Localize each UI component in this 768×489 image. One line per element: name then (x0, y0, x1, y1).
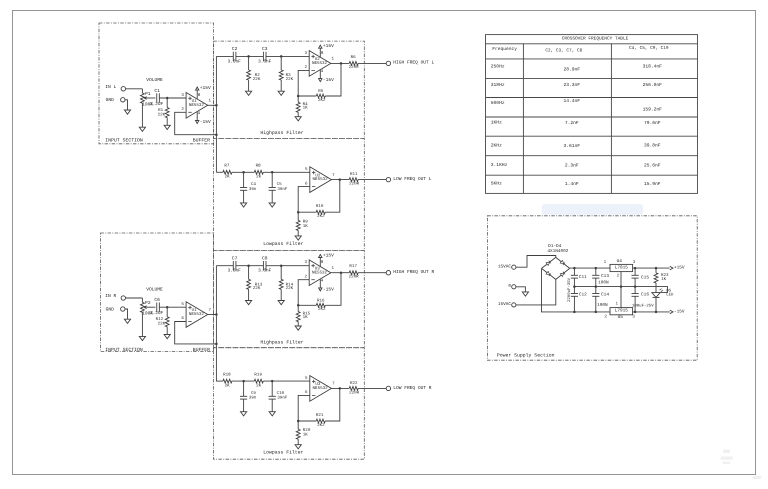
capacitor C12 2200uF-35V (571, 287, 587, 312)
terminal 15VAC bottom (498, 302, 516, 307)
svg-text:C15: C15 (641, 275, 649, 280)
svg-text:R21: R21 (316, 413, 324, 418)
node buffer output on bus (L) (215, 104, 218, 107)
capacitor C7 3.6nF (228, 256, 242, 274)
wire GND terminal to ground (R) (125, 309, 128, 319)
svg-text:15VAC: 15VAC (498, 265, 512, 270)
terminal 0 center tap (508, 284, 516, 289)
wire R18 to R19 (232, 380, 254, 382)
potentiometer P2 VOLUME 100K (140, 286, 163, 336)
svg-text:C12: C12 (579, 293, 587, 298)
svg-text:L7915: L7915 (615, 309, 629, 314)
resistor R19 2K (254, 372, 263, 388)
svg-text:22K: 22K (158, 322, 166, 327)
wire op-amp inverting input to feedback (L) (298, 187, 316, 213)
node C13/C14 midpoint (595, 285, 598, 288)
svg-text:28.9nF: 28.9nF (564, 67, 581, 73)
power supply section box (487, 216, 697, 360)
svg-text:P2: P2 (145, 300, 151, 306)
svg-text:IN R: IN R (105, 293, 116, 299)
resistor R8 2K (254, 164, 263, 180)
capacitor C2 3.6nF (228, 46, 242, 64)
svg-text:R9: R9 (303, 219, 309, 224)
op-amp U3 (305, 376, 335, 402)
svg-text:C6: C6 (154, 297, 160, 303)
wire U4 ground pin to mid rail (620, 272, 622, 287)
svg-text:L7815: L7815 (615, 266, 629, 271)
table row 250Hz (491, 64, 662, 73)
node junction R19/C10 (271, 380, 274, 383)
svg-text:0: 0 (508, 284, 511, 289)
wire op-amp inverting input to feedback (L) (298, 70, 316, 96)
svg-text:3.6nF: 3.6nF (258, 269, 272, 274)
ground symbol below R20 (295, 445, 301, 449)
svg-text:2K: 2K (256, 175, 262, 180)
svg-text:1K: 1K (303, 433, 309, 438)
node C11/C12 midpoint (573, 285, 576, 288)
faint blue watermark highlight (542, 204, 644, 215)
ground symbol below R13 (246, 301, 252, 305)
svg-text:2K2: 2K2 (318, 307, 326, 312)
svg-text:Frequency: Frequency (492, 46, 517, 52)
node junction C3/R3 (280, 55, 283, 58)
svg-text:1K: 1K (303, 224, 309, 229)
svg-text:2.2UF: 2.2UF (150, 102, 164, 107)
input terminal IN L (105, 84, 125, 91)
wire U5 output to -15V (633, 311, 670, 313)
svg-text:INPUT SECTION: INPUT SECTION (105, 138, 143, 144)
resistor R4 1K (296, 96, 308, 117)
svg-text:2K: 2K (225, 175, 231, 180)
svg-text:R10: R10 (316, 204, 324, 209)
svg-text:R16: R16 (317, 299, 325, 304)
resistor R18 2K (223, 372, 232, 388)
svg-text:Highpass Filter: Highpass Filter (260, 339, 303, 345)
svg-text:C11: C11 (579, 275, 587, 280)
node feedback joins bus (R) (215, 343, 218, 346)
wire op-amp output to R17 (331, 272, 349, 274)
svg-text:BUFFER: BUFFER (193, 347, 210, 353)
svg-text:-15V: -15V (323, 77, 334, 83)
wire bus to C7 (216, 265, 233, 267)
resistor R5 2K2 (316, 89, 326, 103)
output connector -15V (670, 309, 685, 314)
ground symbol below R3 (278, 91, 284, 95)
svg-text:GND: GND (106, 97, 115, 103)
svg-text:IN L: IN L (105, 84, 116, 90)
wire plus leg of bridge to plus rail (570, 267, 610, 269)
capacitor C15 (632, 268, 650, 287)
svg-text:2K2: 2K2 (317, 423, 325, 428)
svg-text:3.6nF: 3.6nF (228, 59, 242, 64)
output terminal LOW FREQ OUT R (386, 385, 432, 391)
wire U5 ground pin to mid rail (620, 287, 622, 308)
svg-text:C14: C14 (601, 292, 609, 297)
svg-text:39nF: 39nF (277, 396, 288, 401)
capacitor C4 39n (240, 172, 257, 203)
node output junction (R) (339, 387, 342, 390)
svg-text:U5: U5 (618, 315, 624, 320)
table row 2KHz (491, 143, 661, 149)
svg-text:220R: 220R (349, 274, 360, 279)
svg-text:NE5532: NE5532 (312, 270, 328, 275)
node output junction (L) (339, 178, 342, 181)
node C14 minus rail (595, 311, 598, 314)
wire R7 to R8 (232, 171, 254, 173)
table row 1KHz (491, 120, 661, 126)
output terminal HIGH FREQ OUT R (386, 269, 434, 275)
wire C6 to buffer input (159, 306, 186, 308)
svg-text:3.61nF: 3.61nF (564, 143, 581, 149)
svg-text:2K2: 2K2 (318, 98, 326, 103)
op-amp U2 (305, 167, 335, 193)
wire 15VAC top to bridge (516, 256, 556, 268)
resistor R12 22K (156, 307, 169, 334)
input section box (R) (101, 233, 214, 352)
wire R8 to op-amp + input (263, 171, 310, 173)
resistor R11 220R (349, 172, 360, 186)
-15V power pin of U1 (196, 111, 212, 125)
node C15/C16 mid rail (634, 285, 637, 288)
wire GND terminal to ground (L) (125, 100, 128, 110)
svg-text:LOW FREQ OUT L: LOW FREQ OUT L (393, 176, 431, 182)
svg-text:R11: R11 (350, 172, 358, 177)
wire C3 to op-amp + input (266, 55, 309, 57)
wire C2 to C3 (236, 55, 264, 57)
input terminal IN R (105, 293, 125, 300)
ground symbol below R12 (164, 335, 170, 339)
svg-text:LED: LED (666, 292, 674, 297)
resistor R3 22K (279, 56, 293, 91)
voltage regulator U4 L7815 (604, 259, 636, 278)
node C16 minus rail (634, 311, 637, 314)
svg-text:2K2: 2K2 (317, 214, 325, 219)
resistor R15 1K (296, 305, 310, 326)
wire buffer feedback loop (L) (175, 112, 217, 134)
wire IN R to volume pot (126, 297, 143, 299)
svg-text:NE5532: NE5532 (313, 177, 329, 182)
resistor R7 2K (223, 164, 232, 180)
resistor R16 2K2 (316, 299, 326, 313)
svg-text:+15V: +15V (200, 85, 211, 91)
svg-text:14.4nF: 14.4nF (564, 98, 581, 104)
ground symbol below R2 (246, 91, 252, 95)
svg-text:C10: C10 (277, 391, 285, 396)
resistor R17 220R (349, 264, 360, 279)
svg-text:U4: U4 (617, 259, 623, 264)
svg-text:Highpass Filter: Highpass Filter (260, 130, 303, 136)
svg-text:HIGH FREQ OUT R: HIGH FREQ OUT R (393, 269, 434, 275)
node C12 minus rail (573, 311, 576, 314)
svg-text:3.6nF: 3.6nF (258, 59, 272, 64)
svg-text:1K: 1K (303, 106, 309, 111)
svg-text:220R: 220R (349, 390, 360, 395)
capacitor C5 39nF (269, 172, 288, 203)
svg-text:220R: 220R (349, 65, 360, 70)
+15V power pin of U3 (319, 253, 335, 267)
svg-text:22K: 22K (286, 77, 294, 82)
svg-text:39n: 39n (249, 396, 257, 401)
wire bus to R7 (216, 171, 223, 173)
node buffer output on bus (R) (215, 313, 218, 316)
wire op-amp inverting input to feedback (R) (298, 395, 316, 421)
wire IN L to volume pot (126, 88, 143, 90)
table row 5KHz (491, 181, 661, 187)
capacitor C16 100uF-25V (632, 287, 655, 312)
resistor R20 1K (296, 421, 311, 445)
svg-text:220R: 220R (349, 182, 360, 187)
svg-text:HIGH FREQ OUT L: HIGH FREQ OUT L (393, 60, 434, 66)
wire op-amp output to R6 (331, 62, 349, 64)
capacitor C10 39nF (269, 381, 288, 412)
capacitor C13 100N (592, 268, 609, 287)
resistor R2 22K (247, 56, 261, 91)
svg-text:39nF: 39nF (277, 187, 288, 192)
svg-text:P1: P1 (145, 91, 151, 97)
node junction C7/R13 (247, 264, 250, 267)
capacitor C11 2200uF-35V (571, 268, 587, 287)
svg-text:Lowpass Filter: Lowpass Filter (263, 450, 303, 456)
svg-text:15VAC: 15VAC (498, 302, 512, 307)
resistor R23 1K (654, 268, 669, 293)
wire U4 output to +15V (633, 267, 670, 269)
node junction R18/C9 (242, 380, 245, 383)
wire R22 to LOW FREQ OUT R terminal (358, 387, 386, 389)
wire C7 to C8 (236, 265, 264, 267)
svg-text:C2, C3, C7, C8: C2, C3, C7, C8 (545, 49, 582, 54)
svg-text:C8: C8 (262, 256, 268, 262)
resistor R14 22K (279, 266, 293, 301)
capacitor C8 3.6nF (258, 256, 272, 274)
svg-text:100N: 100N (597, 303, 608, 308)
svg-text:R5: R5 (318, 89, 324, 94)
svg-text:100uF-25V: 100uF-25V (632, 303, 654, 308)
lowpass filter box (R) (214, 348, 365, 460)
resistor R22 220R (349, 381, 360, 395)
svg-text:39.8nF: 39.8nF (644, 143, 661, 149)
svg-text:100N: 100N (598, 280, 609, 285)
wire 15VAC bottom to bridge (516, 279, 556, 305)
LED D5 (652, 289, 674, 298)
node C15 plus rail (634, 267, 637, 270)
svg-text:C5: C5 (277, 182, 283, 187)
svg-text:2K: 2K (225, 384, 231, 389)
svg-text:39n: 39n (249, 187, 257, 192)
ground symbol below P2 (139, 336, 145, 340)
node junction C8/R14 (280, 264, 283, 267)
svg-text:3.6nF: 3.6nF (228, 269, 242, 274)
capacitor C14 100N (592, 287, 609, 312)
ground symbol below C5 (269, 203, 275, 207)
svg-text:C16: C16 (641, 292, 649, 297)
wire minus leg of bridge to minus rail (542, 268, 611, 312)
svg-text:5KHz: 5KHz (491, 181, 502, 187)
highpass filter box (L) (214, 41, 365, 138)
ground symbol below R15 (295, 326, 301, 330)
svg-text:2KHz: 2KHz (491, 143, 502, 149)
wire R11 to LOW FREQ OUT L terminal (358, 179, 386, 181)
wire R6 to HIGH FREQ OUT L terminal (358, 62, 386, 64)
wire signal bus (R) (215, 266, 217, 382)
wire wiper of P1 to coupling cap (147, 97, 156, 99)
svg-text:NE5532: NE5532 (189, 312, 205, 317)
node junction C2/R2 (247, 55, 250, 58)
node junction R8/C5 (271, 171, 274, 174)
svg-text:GND: GND (106, 306, 115, 312)
svg-text:C4, C5, C9, C10: C4, C5, C9, C10 (629, 46, 669, 51)
wire mid rail (574, 287, 667, 293)
op-amp U2 (304, 43, 334, 83)
node feedback junction R4 (297, 95, 300, 98)
svg-text:1.4nF: 1.4nF (565, 181, 579, 187)
svg-text:C4: C4 (251, 182, 257, 187)
svg-text:318Hz: 318Hz (491, 82, 505, 88)
node feedback junction R15 (297, 304, 300, 307)
wire buffer output (L) (208, 104, 217, 106)
capacitor C9 39n (240, 381, 257, 412)
wire buffer feedback loop (R) (175, 322, 217, 344)
svg-text:159.2nF: 159.2nF (643, 106, 663, 112)
svg-text:22K: 22K (158, 112, 166, 117)
wire buffer output (R) (208, 314, 217, 316)
ground symbol at center tap (522, 292, 528, 296)
svg-text:C1: C1 (154, 88, 160, 94)
op-amp U1 (181, 85, 211, 125)
svg-text:15.9nF: 15.9nF (644, 181, 661, 187)
svg-text:LOW FREQ OUT R: LOW FREQ OUT R (393, 385, 431, 391)
table row 318Hz (491, 82, 662, 88)
ground symbol below C4 (241, 203, 247, 207)
wire feedback to output (L) (325, 180, 340, 213)
ground symbol below R1 (164, 125, 170, 129)
ground symbol below R4 (295, 117, 301, 121)
+15V power pin of U1 (196, 85, 212, 99)
svg-text:1KHz: 1KHz (491, 120, 502, 126)
ground symbol at GND terminal (L) (124, 110, 130, 114)
op-amp U3 (304, 253, 334, 293)
resistor R10 2K2 (316, 204, 325, 219)
op-amp U1 (181, 302, 211, 328)
node feedback joins bus (L) (215, 133, 218, 136)
svg-text:2.3nF: 2.3nF (565, 162, 579, 168)
svg-text:C7: C7 (232, 256, 238, 262)
svg-text:R22: R22 (350, 381, 358, 386)
svg-text:1K: 1K (661, 277, 667, 282)
svg-text:79.6nF: 79.6nF (644, 120, 661, 126)
svg-text:BUFFER: BUFFER (193, 138, 210, 144)
wire op-amp output to R22 (331, 387, 349, 389)
wire feedback to output (R) (325, 388, 340, 421)
node buffer input junction (R) (166, 306, 169, 309)
node output junction (R) (340, 271, 343, 274)
wire signal bus (L) (215, 56, 217, 172)
wire op-amp output to R11 (331, 179, 349, 181)
svg-text:R8: R8 (256, 164, 262, 169)
ground terminal GND (R) (106, 306, 125, 312)
+15V power pin of U2 (319, 43, 335, 57)
svg-text:2K: 2K (256, 384, 262, 389)
capacitor C1 2.2UF (150, 88, 164, 107)
svg-text:25.6nF: 25.6nF (644, 162, 661, 168)
svg-text:C13: C13 (601, 274, 609, 279)
wire bus to C2 (216, 55, 233, 57)
node junction R7/C4 (242, 171, 245, 174)
output terminal HIGH FREQ OUT L (386, 60, 434, 66)
svg-text:R6: R6 (351, 55, 357, 60)
node U4/U5 ground on mid rail (620, 285, 623, 288)
svg-text:4X1N4002: 4X1N4002 (547, 249, 568, 254)
svg-text:C3: C3 (262, 46, 268, 52)
wire op-amp inverting input to feedback (R) (298, 280, 316, 306)
svg-text:Power Supply Section: Power Supply Section (497, 353, 555, 359)
svg-text:VOLUME: VOLUME (146, 286, 163, 292)
ground symbol at GND terminal (R) (124, 319, 130, 323)
svg-text:R12: R12 (156, 317, 164, 322)
wire R17 to HIGH FREQ OUT R terminal (358, 272, 386, 274)
svg-text:22K: 22K (253, 286, 261, 291)
highpass filter box (R) (214, 250, 365, 347)
-15V power pin of U3 (319, 279, 335, 293)
wire feedback to output (R) (325, 273, 341, 306)
ground symbol below R9 (295, 236, 301, 240)
potentiometer P1 VOLUME 100K (140, 77, 163, 127)
-15V power pin of U2 (319, 69, 335, 83)
svg-text:NE5532: NE5532 (313, 386, 329, 391)
bridge rectifier D1-D4 4X1N4002 (542, 244, 570, 280)
wire C8 to op-amp + input (266, 265, 309, 267)
ground terminal GND (L) (106, 97, 125, 103)
node C13 plus rail (595, 267, 598, 270)
table row 3.1KHz (491, 162, 661, 168)
resistor R9 1K (296, 212, 308, 236)
ground symbol below R14 (278, 301, 284, 305)
input section box (L) (99, 23, 214, 144)
resistor R13 22K (247, 266, 263, 301)
node R23 plus rail (655, 267, 658, 270)
svg-text:318.4nF: 318.4nF (643, 64, 663, 70)
svg-text:-15V: -15V (323, 286, 334, 292)
svg-text:+15V: +15V (323, 43, 334, 49)
svg-text:250Hz: 250Hz (491, 64, 505, 70)
crossover frequency table (486, 35, 698, 194)
wire feedback to output (L) (325, 63, 341, 96)
wire R19 to op-amp + input (263, 380, 310, 382)
resistor R21 2K2 (316, 413, 325, 428)
svg-text:256.0nF: 256.0nF (643, 82, 663, 88)
svg-text:3.1KHz: 3.1KHz (491, 162, 508, 168)
voltage regulator U5 L7915 (604, 302, 635, 321)
faint corner watermark (721, 450, 762, 480)
node feedback junction R20 (297, 420, 300, 423)
capacitor C6 2.2UF (150, 297, 164, 316)
svg-text:R17: R17 (349, 264, 357, 269)
svg-text:500Hz: 500Hz (491, 100, 505, 106)
output terminal LOW FREQ OUT L (386, 176, 432, 182)
node buffer input junction (L) (166, 97, 169, 100)
terminal 15VAC top (498, 265, 516, 270)
svg-text:22K: 22K (253, 77, 261, 82)
svg-text:1K: 1K (303, 315, 309, 320)
table row 500Hz (491, 98, 662, 113)
ground symbol below P1 (139, 127, 145, 131)
node C11 plus rail (573, 267, 576, 270)
node feedback junction R9 (297, 211, 300, 214)
svg-text:2.2UF: 2.2UF (150, 311, 164, 316)
svg-text:-15V: -15V (674, 309, 685, 314)
svg-text:NE5532: NE5532 (189, 103, 205, 108)
svg-text:NE5532: NE5532 (312, 61, 328, 66)
svg-text:R20: R20 (303, 428, 311, 433)
